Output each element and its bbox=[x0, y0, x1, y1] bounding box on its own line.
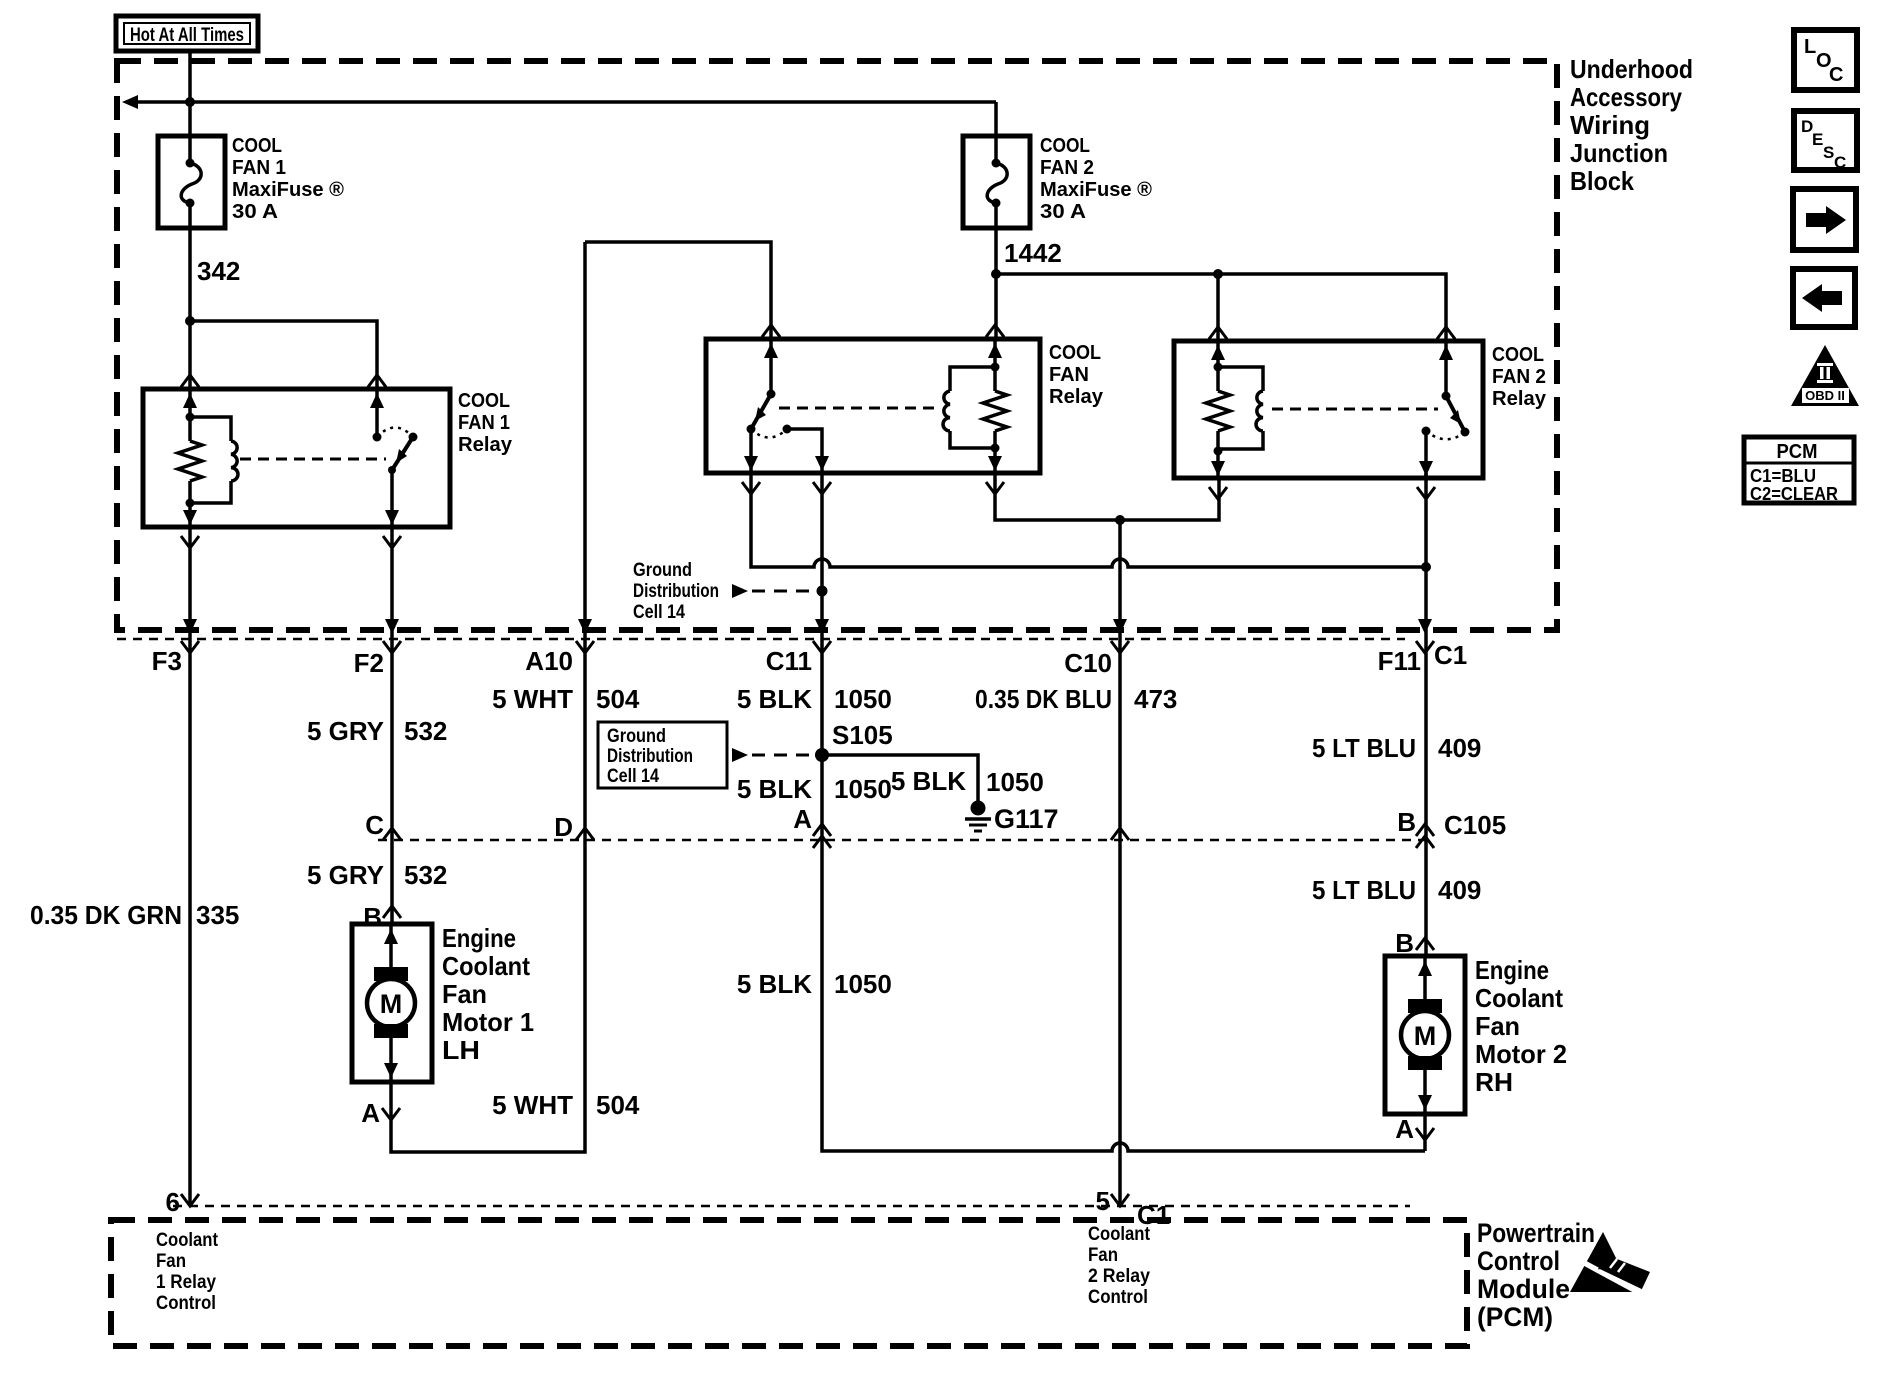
connector fork: K2 output pin (bottom) bbox=[813, 482, 831, 494]
connector fork: K1 pin 86 (bottom) bbox=[181, 536, 199, 548]
svg-text:C: C bbox=[1829, 64, 1843, 86]
svg-text:Coolant: Coolant bbox=[1088, 1224, 1151, 1245]
motor M1 return arrow bbox=[389, 1038, 393, 1082]
node: K3 switch open contact bbox=[1461, 428, 1470, 437]
svg-text:409: 409 bbox=[1438, 875, 1481, 905]
svg-text:5 BLK: 5 BLK bbox=[737, 774, 812, 804]
legend table: PCM connectors bbox=[1744, 437, 1854, 503]
connector caret: motor 2 pin B bbox=[1416, 938, 1434, 950]
svg-text:Coolant: Coolant bbox=[156, 1230, 219, 1251]
svg-text:Distribution: Distribution bbox=[633, 581, 719, 602]
connector caret: K1 coil pin (top) bbox=[181, 375, 199, 387]
node: K1 switch common bbox=[388, 466, 396, 474]
dotted throw arc of K3 switch bbox=[1426, 431, 1465, 439]
svg-text:5 GRY: 5 GRY bbox=[307, 860, 384, 890]
connector caret: K3 coil pin (top) bbox=[1209, 327, 1227, 339]
C105 double caret at B bbox=[1416, 824, 1434, 836]
wire A10/5 WHT 504 run to motor 1 pin A bbox=[391, 242, 585, 1152]
connector fork: K1 pin 87 (bottom) bbox=[383, 536, 401, 548]
svg-text:5 LT BLU: 5 LT BLU bbox=[1312, 875, 1416, 905]
svg-text:409: 409 bbox=[1438, 733, 1481, 763]
svg-text:335: 335 bbox=[196, 900, 239, 930]
svg-text:5 GRY: 5 GRY bbox=[307, 716, 384, 746]
icon: LOC box bbox=[1794, 30, 1857, 90]
pin fork at F3 bbox=[181, 641, 199, 653]
wire 1442: fuse F2 output bbox=[994, 228, 998, 274]
svg-text:Junction: Junction bbox=[1570, 138, 1668, 168]
svg-text:5: 5 bbox=[1096, 1186, 1110, 1216]
connector fork: K2 coil pin (bottom) bbox=[986, 482, 1004, 494]
svg-text:Relay: Relay bbox=[1049, 386, 1104, 408]
resistor in K3 bbox=[1216, 367, 1220, 391]
motor M1 feed arrow bbox=[389, 924, 393, 968]
relay K2 coil feed arrow bbox=[993, 339, 997, 367]
svg-text:FAN: FAN bbox=[1049, 364, 1089, 386]
svg-text:B: B bbox=[1397, 807, 1416, 837]
node: splice to C10 bbox=[1115, 515, 1125, 525]
switch blade K2 bbox=[751, 394, 771, 429]
wire: K2/K3 coil grounds linked bbox=[995, 473, 1219, 520]
wire: branch to relay K1 switch bbox=[190, 321, 377, 389]
svg-text:(PCM): (PCM) bbox=[1477, 1302, 1553, 1332]
svg-text:1050: 1050 bbox=[986, 767, 1044, 797]
svg-text:30 A: 30 A bbox=[1040, 201, 1086, 223]
svg-text:0.35 DK BLU: 0.35 DK BLU bbox=[975, 684, 1112, 714]
svg-text:Distribution: Distribution bbox=[607, 746, 693, 767]
svg-text:FAN 1: FAN 1 bbox=[232, 157, 286, 179]
wire: K2 common down and across to F11 drop (hops over two wires) bbox=[751, 473, 1426, 567]
pin arrowhead at C11 bbox=[815, 619, 829, 634]
wire: A10 riser and feed to relay K2 switch bbox=[585, 242, 771, 339]
dashed boundary: Powertrain Control Module (PCM) bbox=[111, 1220, 1467, 1346]
relay K3 coil feed arrow bbox=[1216, 341, 1220, 367]
wire F3: 0.35 DK GRN 335 down to PCM pin 6 bbox=[188, 527, 192, 1206]
svg-text:FAN 1: FAN 1 bbox=[458, 412, 510, 434]
svg-text:LH: LH bbox=[442, 1035, 480, 1065]
connector caret: K3 switch pin (top) bbox=[1437, 327, 1455, 339]
motor M1 top brush cap bbox=[374, 967, 408, 981]
svg-text:532: 532 bbox=[404, 716, 447, 746]
C105 caret at C bbox=[383, 828, 401, 840]
svg-text:D: D bbox=[554, 812, 573, 842]
svg-text:C2=CLEAR: C2=CLEAR bbox=[1750, 484, 1838, 504]
svg-text:FAN 2: FAN 2 bbox=[1040, 157, 1094, 179]
svg-text:F11: F11 bbox=[1378, 646, 1421, 676]
wire: battery feed from Hot At All Times into junction block bbox=[188, 51, 192, 136]
svg-text:5 BLK: 5 BLK bbox=[891, 766, 966, 796]
node: K1 switch input contact bbox=[373, 433, 382, 442]
relay K2 switch feed arrow bbox=[769, 339, 773, 394]
svg-text:S: S bbox=[1823, 143, 1834, 162]
node: splice 1442 to relay K3 coil bbox=[1213, 269, 1223, 279]
pin arrowhead at A10 bbox=[578, 619, 592, 634]
wire: K1 coil to bottom pin bbox=[188, 503, 192, 527]
C105 double caret at A bbox=[813, 824, 831, 836]
motor M2 box: Engine Coolant Fan Motor 2 RH bbox=[1385, 956, 1465, 1114]
node: K1 coil top bbox=[186, 413, 195, 422]
svg-text:PCM: PCM bbox=[1777, 441, 1818, 463]
wire: K2 output down to C11 / S105 / ground run (hops near motor2) bbox=[822, 473, 1425, 1151]
label box: Hot At All Times bbox=[116, 16, 258, 51]
svg-text:Block: Block bbox=[1570, 166, 1634, 196]
svg-text:Hot At All Times: Hot At All Times bbox=[130, 25, 244, 46]
motor M2 armature circle bbox=[1401, 1011, 1449, 1059]
node: K3 coil bottom bbox=[1214, 447, 1223, 456]
svg-text:1 Relay: 1 Relay bbox=[156, 1272, 216, 1293]
pin arrowhead at F2 bbox=[385, 619, 399, 634]
icon: DESC box bbox=[1794, 111, 1857, 170]
svg-text:Relay: Relay bbox=[458, 434, 513, 456]
dashed actuation link K3 bbox=[1272, 408, 1438, 411]
pin arrowhead at F3 bbox=[183, 619, 197, 634]
svg-text:RH: RH bbox=[1475, 1067, 1513, 1097]
svg-text:Accessory: Accessory bbox=[1570, 82, 1682, 112]
svg-text:Control: Control bbox=[1088, 1287, 1148, 1308]
svg-text:Motor 2: Motor 2 bbox=[1475, 1039, 1567, 1069]
svg-text:473: 473 bbox=[1134, 684, 1177, 714]
switch blade K3 bbox=[1446, 396, 1465, 432]
svg-text:C: C bbox=[365, 810, 384, 840]
relay K1 coil feed arrow bbox=[188, 389, 192, 417]
svg-text:504: 504 bbox=[596, 1090, 640, 1120]
motor M2 feed arrow bbox=[1423, 956, 1427, 1000]
wire: 1442 bus to relay K3 switch bbox=[996, 274, 1446, 341]
node: K2 switch input contact bbox=[767, 390, 776, 399]
node: K3 switch common bbox=[1422, 427, 1431, 436]
resistor in K2 bbox=[993, 367, 997, 391]
C105 caret at C10 wire bbox=[1111, 828, 1129, 840]
svg-text:F2: F2 bbox=[354, 648, 384, 678]
svg-text:COOL: COOL bbox=[232, 135, 282, 157]
svg-text:COOL: COOL bbox=[1049, 342, 1101, 364]
wire: hot bus across top to Cool Fan 2 fuse bbox=[128, 100, 996, 104]
connector fork: PCM pin 5 bbox=[1111, 1194, 1129, 1206]
svg-text:5 BLK: 5 BLK bbox=[737, 684, 812, 714]
relay K1 switch feed arrow bbox=[375, 389, 379, 437]
svg-text:Fan: Fan bbox=[1088, 1245, 1118, 1266]
svg-text:COOL: COOL bbox=[458, 390, 510, 412]
svg-text:Cell 14: Cell 14 bbox=[607, 766, 659, 787]
svg-text:1050: 1050 bbox=[834, 774, 892, 804]
pin fork at C11 bbox=[813, 641, 831, 653]
svg-text:1050: 1050 bbox=[834, 969, 892, 999]
svg-text:MaxiFuse ®: MaxiFuse ® bbox=[232, 179, 344, 201]
wire: K3 coil to bottom pin bbox=[1216, 451, 1220, 478]
connector fork: PCM pin 6 bbox=[181, 1194, 199, 1206]
pointer arrow to C11 wire (upper) bbox=[732, 584, 748, 598]
coil of relay K3 bbox=[1218, 367, 1263, 391]
node: K2 coil top bbox=[991, 363, 1000, 372]
connector fork: K3 coil pin (bottom) bbox=[1209, 487, 1227, 499]
svg-text:Powertrain: Powertrain bbox=[1477, 1218, 1595, 1248]
svg-text:Module: Module bbox=[1477, 1274, 1570, 1304]
connector caret: K2 coil pin (top) bbox=[986, 325, 1004, 337]
svg-text:6: 6 bbox=[166, 1187, 180, 1217]
wire: hot bus drop into Cool Fan 2 fuse bbox=[994, 102, 998, 136]
wire: 1442 drop to relay K3 coil bbox=[1216, 274, 1220, 341]
thin dashed connector line under junction block bbox=[117, 638, 1405, 641]
svg-text:5 WHT: 5 WHT bbox=[492, 1090, 573, 1120]
node: K1 coil bottom bbox=[186, 499, 195, 508]
svg-text:C10: C10 bbox=[1064, 648, 1112, 678]
connector fork: K3 common pin (bottom) bbox=[1417, 487, 1435, 499]
ESD sensitivity symbol bbox=[1570, 1232, 1633, 1292]
thin dashed in-line connector C105 bbox=[378, 839, 1425, 842]
connector fork: motor 1 pin A bbox=[382, 1108, 400, 1120]
wire: K2 open contact to bottom pin bbox=[787, 429, 822, 473]
svg-text:B: B bbox=[363, 902, 382, 932]
wire: K2 common to bottom pin bbox=[749, 429, 753, 473]
svg-text:504: 504 bbox=[596, 684, 640, 714]
pin arrowhead at C10 bbox=[1113, 619, 1127, 634]
svg-text:Underhood: Underhood bbox=[1570, 54, 1693, 84]
svg-text:0.35 DK GRN: 0.35 DK GRN bbox=[30, 900, 182, 930]
svg-text:A: A bbox=[793, 804, 812, 834]
svg-text:Ground: Ground bbox=[633, 560, 692, 581]
motor M2 return arrow bbox=[1423, 1070, 1427, 1114]
node: splice on hot feed bbox=[185, 97, 195, 107]
wire: K2 coil to bottom pin bbox=[993, 448, 997, 473]
svg-text:A: A bbox=[1395, 1114, 1414, 1144]
relay K3 switch feed arrow bbox=[1444, 341, 1448, 396]
svg-text:1442: 1442 bbox=[1004, 238, 1062, 268]
node: K2 coil bottom bbox=[991, 444, 1000, 453]
icon: forward arrow box bbox=[1793, 189, 1856, 250]
node: splice 342 to relay branches bbox=[185, 316, 195, 326]
relay K2 box: COOL FAN Relay bbox=[706, 339, 1040, 473]
svg-text:COOL: COOL bbox=[1040, 135, 1090, 157]
svg-text:C105: C105 bbox=[1444, 810, 1506, 840]
svg-text:342: 342 bbox=[197, 256, 240, 286]
svg-text:M: M bbox=[380, 989, 403, 1019]
coil of relay K2 bbox=[950, 367, 995, 391]
svg-text:1050: 1050 bbox=[834, 684, 892, 714]
svg-text:Engine: Engine bbox=[442, 923, 516, 953]
svg-text:532: 532 bbox=[404, 860, 447, 890]
wire: 1442 drop to relay K2 coil bbox=[994, 274, 998, 339]
svg-text:Control: Control bbox=[156, 1293, 216, 1314]
dashed boundary: Underhood Accessory Wiring Junction Block bbox=[117, 61, 1557, 630]
pin arrowhead at F11 bbox=[1418, 619, 1432, 634]
wire: S105 branch to ground G117 bbox=[822, 755, 978, 801]
dashed actuation link K2 bbox=[779, 407, 934, 410]
fuse F2 element bbox=[994, 136, 998, 163]
thin dashed connector line above PCM bbox=[173, 1205, 1410, 1208]
svg-text:A10: A10 bbox=[525, 646, 573, 676]
svg-text:G117: G117 bbox=[994, 804, 1059, 834]
svg-text:Fan: Fan bbox=[156, 1251, 186, 1272]
svg-text:L: L bbox=[1804, 36, 1816, 58]
pin fork at C10 bbox=[1111, 641, 1129, 653]
svg-text:Fan: Fan bbox=[1475, 1011, 1520, 1041]
wire: K1 switch common to bottom pin bbox=[390, 470, 394, 527]
svg-text:2 Relay: 2 Relay bbox=[1088, 1266, 1150, 1287]
svg-text:C11: C11 bbox=[766, 646, 812, 676]
connector caret: K2 switch pin (top) bbox=[762, 325, 780, 337]
svg-text:Wiring: Wiring bbox=[1570, 110, 1650, 140]
svg-text:A: A bbox=[361, 1098, 380, 1128]
svg-text:Ground: Ground bbox=[607, 726, 666, 747]
node: K2 switch open contact bbox=[783, 425, 792, 434]
wire F2: 5 GRY 532 down to motor 1 pin B bbox=[390, 527, 394, 924]
dotted throw arc of K2 switch bbox=[751, 429, 787, 438]
motor M1 bottom brush cap bbox=[374, 1024, 408, 1038]
motor M1 box: Engine Coolant Fan Motor 1 LH bbox=[352, 924, 432, 1082]
boxed label: Ground Distribution Cell 14 (lower) bbox=[598, 722, 727, 788]
pin fork at F2 bbox=[383, 641, 401, 653]
node: K3 switch input contact bbox=[1442, 392, 1451, 401]
pin fork at A10 bbox=[576, 641, 594, 653]
svg-text:Coolant: Coolant bbox=[442, 951, 530, 981]
fuse F1 element bbox=[188, 136, 192, 163]
arrowhead: hot bus pointing left bbox=[122, 95, 138, 109]
svg-text:30 A: 30 A bbox=[232, 201, 278, 223]
fuse F1 box: COOL FAN 1 MaxiFuse 30 A bbox=[158, 136, 225, 228]
svg-text:5 WHT: 5 WHT bbox=[492, 684, 573, 714]
splice S105 bbox=[815, 748, 829, 762]
motor M2 top brush cap bbox=[1408, 999, 1442, 1013]
svg-text:Fan: Fan bbox=[442, 979, 487, 1009]
dotted throw arc of K1 switch bbox=[377, 428, 413, 438]
svg-text:Motor 1: Motor 1 bbox=[442, 1007, 534, 1037]
wire: branch to relay K1 coil bbox=[188, 321, 192, 389]
node: tap on C11 wire bbox=[817, 586, 828, 597]
wire 342: fuse F1 output bbox=[188, 228, 192, 321]
node: K2 switch common bbox=[747, 425, 756, 434]
fuse F2 box: COOL FAN 2 MaxiFuse 30 A bbox=[963, 136, 1030, 228]
node: K1 switch open contact bbox=[409, 433, 418, 442]
svg-text:MaxiFuse ®: MaxiFuse ® bbox=[1040, 179, 1152, 201]
wire: C10 drop from coil link to PCM pin 5 bbox=[1118, 520, 1122, 1206]
switch blade K1 bbox=[392, 437, 413, 470]
relay K1 box: COOL FAN 1 Relay bbox=[143, 389, 450, 527]
svg-text:Coolant: Coolant bbox=[1475, 983, 1563, 1013]
svg-text:COOL: COOL bbox=[1492, 344, 1544, 366]
wire: K3 common down to F11 and motor 2 bbox=[1424, 473, 1428, 956]
motor M1 armature circle bbox=[367, 979, 415, 1027]
svg-text:C1: C1 bbox=[1434, 640, 1467, 670]
C105 caret at D bbox=[576, 828, 594, 840]
svg-text:F3: F3 bbox=[152, 646, 182, 676]
svg-text:C1=BLU: C1=BLU bbox=[1750, 466, 1816, 486]
ground symbol G117 bbox=[971, 801, 986, 816]
resistor in K1 bbox=[188, 417, 192, 441]
connector caret: motor 1 pin B bbox=[383, 906, 401, 918]
svg-text:Cell 14: Cell 14 bbox=[633, 602, 685, 623]
pointer arrow to splice S105 bbox=[732, 748, 748, 762]
svg-text:5 LT BLU: 5 LT BLU bbox=[1312, 733, 1416, 763]
icon: back arrow box bbox=[1793, 269, 1855, 327]
svg-text:C: C bbox=[1834, 153, 1846, 172]
coil of relay K1 bbox=[190, 417, 231, 441]
svg-text:Relay: Relay bbox=[1492, 388, 1547, 410]
svg-text:Engine: Engine bbox=[1475, 955, 1549, 985]
wire: K3 common to bottom pin bbox=[1424, 431, 1428, 478]
svg-text:S105: S105 bbox=[832, 720, 893, 750]
svg-text:M: M bbox=[1414, 1021, 1437, 1051]
icon: OBD II triangle bbox=[1791, 345, 1859, 406]
node: junction on F11 drop bbox=[1421, 562, 1431, 572]
svg-text:Control: Control bbox=[1477, 1246, 1560, 1276]
motor M2 bottom brush cap bbox=[1408, 1056, 1442, 1070]
node: K3 coil top bbox=[1214, 363, 1223, 372]
svg-text:FAN 2: FAN 2 bbox=[1492, 366, 1546, 388]
pin fork at F11 bbox=[1416, 641, 1434, 653]
relay K3 box: COOL FAN 2 Relay bbox=[1174, 341, 1483, 478]
svg-text:OBD II: OBD II bbox=[1805, 388, 1845, 403]
node: splice 1442 bbox=[991, 269, 1001, 279]
connector caret: K1 switch pin (top) bbox=[368, 375, 386, 387]
svg-text:5 BLK: 5 BLK bbox=[737, 969, 812, 999]
svg-text:E: E bbox=[1812, 130, 1823, 149]
wire: motor 2 pin A down to ground run bbox=[1423, 1114, 1427, 1151]
dashed actuation link K1 bbox=[240, 458, 386, 461]
connector fork: motor 2 pin A bbox=[1416, 1128, 1434, 1140]
connector fork: K2 common pin (bottom) bbox=[742, 482, 760, 494]
